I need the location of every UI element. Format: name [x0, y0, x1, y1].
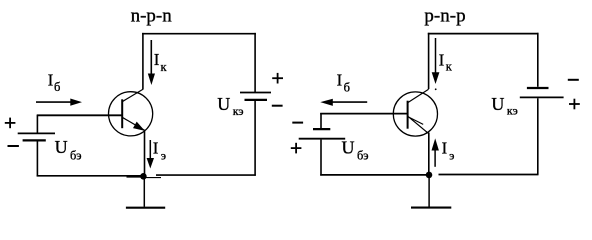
- minus sign (GB3 top): [292, 122, 303, 124]
- plus sign (GB1 top): [5, 118, 16, 129]
- Ik arrowhead: [148, 74, 155, 86]
- wire collector riser: [142, 33, 144, 89]
- label Uke (value label of GB2): [217, 94, 243, 118]
- Ik arrow shaft (right): [435, 38, 437, 74]
- svg-text:к: к: [161, 60, 168, 74]
- wire top (collector loop): [142, 33, 256, 35]
- svg-text:U: U: [55, 137, 68, 157]
- plus sign (GB4 bottom): [569, 99, 580, 110]
- ground bar: [126, 207, 165, 209]
- plus sign (GB2 top): [272, 73, 283, 84]
- svg-text:I: I: [48, 70, 54, 89]
- Ie arrow shaft (right): [434, 150, 436, 167]
- svg-text:бэ: бэ: [70, 148, 82, 162]
- svg-text:n-p-n: n-p-n: [131, 6, 173, 27]
- Ie arrowhead (right): [432, 138, 439, 150]
- svg-text:э: э: [161, 148, 166, 162]
- current arrow Ik: [148, 40, 168, 85]
- VT1 emitter arrowhead (outward, n-p-n): [133, 122, 145, 131]
- svg-text:U: U: [342, 137, 355, 157]
- current arrow Ie: [147, 138, 166, 168]
- svg-text:U: U: [491, 94, 504, 114]
- wire base: [320, 113, 408, 115]
- VT2 emitter arrowhead line (inward, p-n-p): [409, 117, 423, 124]
- battery GB2 Uke: top lead: [254, 33, 256, 92]
- battery GB4 Uke: top lead: [537, 33, 539, 87]
- VT1 base bar: [121, 99, 123, 128]
- Ik arrowhead (right): [432, 72, 440, 84]
- wire bottom right segment: [156, 174, 256, 176]
- ground lead (right circuit): [428, 175, 430, 207]
- label Ube (value label of GB1): [55, 137, 82, 162]
- battery GB1 Ube: top lead: [36, 115, 38, 133]
- svg-text:I: I: [153, 138, 159, 157]
- battery GB3 Ube: short plate: [313, 128, 330, 130]
- VT1 emitter lead: [122, 117, 145, 130]
- wire bottom left segment: [37, 175, 144, 177]
- svg-text:I: I: [442, 139, 448, 158]
- wire base: [37, 114, 122, 116]
- Ie arrowhead: [147, 158, 154, 169]
- svg-text:б: б: [54, 80, 60, 94]
- current arrow Ib: [36, 70, 82, 105]
- wire bottom left segment (right circuit): [320, 174, 429, 176]
- wire collector riser: [428, 33, 430, 89]
- current arrow Ie (right, pointing up): [432, 138, 455, 166]
- wire emitter drop: [428, 133, 430, 176]
- Ie arrow shaft: [149, 140, 151, 159]
- VT2 base bar: [407, 101, 409, 129]
- VT1 body circle: [109, 92, 153, 136]
- wire bottom left thick stub: [127, 175, 144, 178]
- battery GB2 Uke: short plate: [245, 99, 268, 101]
- VT2 emitter joint: [426, 132, 429, 134]
- label Uke (right): [491, 94, 517, 118]
- svg-text:I: I: [154, 50, 160, 69]
- svg-text:кэ: кэ: [233, 104, 244, 118]
- svg-text:I: I: [439, 50, 445, 69]
- Ib arrow shaft: [36, 101, 71, 103]
- transistor VT2 (p-n-p): [393, 89, 437, 136]
- wire top (collector loop): [428, 33, 539, 35]
- node junction dot (right circuit): [426, 172, 433, 179]
- svg-text:кэ: кэ: [507, 104, 518, 118]
- battery GB3 Ube: top lead: [320, 113, 322, 128]
- ground bar (right circuit): [411, 207, 451, 209]
- battery GB2 Uke: bottom lead: [254, 101, 256, 176]
- Ib arrow shaft (right): [332, 101, 367, 103]
- Ib arrowhead: [70, 99, 82, 106]
- current arrow Ib (right, pointing left): [320, 71, 367, 106]
- plus sign (GB3 bottom): [291, 143, 302, 154]
- wire bottom right stub: [144, 177, 162, 179]
- battery GB3 Ube: bottom lead: [320, 140, 322, 176]
- current arrow Ik (right): [432, 38, 453, 84]
- stray dot below Ik arrow (right): [435, 88, 437, 90]
- battery GB4 Uke: bottom lead: [537, 98, 539, 175]
- battery GB1 Ube: long plate: [18, 132, 55, 134]
- svg-text:I: I: [337, 71, 343, 90]
- battery GB1 Ube: short plate: [23, 139, 46, 141]
- battery GB3 Ube: long plate: [299, 138, 346, 140]
- wire emitter drop: [144, 131, 146, 178]
- minus sign (GB4 top): [568, 79, 579, 81]
- VT2 body circle: [393, 92, 437, 136]
- node junction dot: [140, 173, 147, 180]
- svg-text:бэ: бэ: [357, 148, 369, 162]
- VT2 collector lead: [408, 89, 429, 103]
- label Ube (right): [342, 137, 369, 162]
- minus sign (GB2 bottom): [272, 105, 283, 107]
- battery GB1 Ube: bottom lead: [36, 141, 38, 176]
- battery GB2 Uke: long plate: [240, 92, 271, 94]
- ground lead: [143, 176, 145, 206]
- transistor VT1 (n-p-n): [109, 89, 153, 136]
- svg-text:к: к: [446, 60, 453, 74]
- VT1 collector lead: [122, 89, 143, 102]
- Ib arrowhead (right): [320, 99, 333, 106]
- svg-text:э: э: [449, 149, 454, 163]
- VT2 emitter lead: [408, 117, 426, 132]
- svg-text:б: б: [344, 80, 350, 94]
- svg-text:U: U: [217, 94, 230, 114]
- minus sign (GB1 bottom): [8, 145, 19, 147]
- battery GB4 Uke: short plate: [527, 87, 549, 89]
- Ik arrow shaft: [150, 40, 152, 75]
- wire bottom right segment (right circuit): [439, 174, 539, 176]
- svg-text:p-n-p: p-n-p: [424, 6, 465, 27]
- battery GB4 Uke: long plate: [520, 96, 564, 98]
